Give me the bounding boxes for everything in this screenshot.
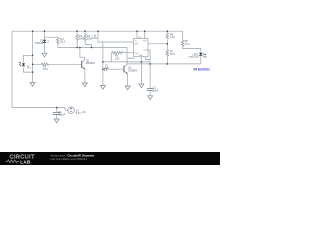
svg-text:1.0k: 1.0k [115, 57, 120, 60]
svg-text:2N3904: 2N3904 [128, 69, 137, 72]
wire R1 top lead [76, 31, 78, 34]
svg-text:100k: 100k [79, 38, 85, 41]
wire R4 bottom to H3 [58, 45, 127, 48]
svg-text:LAB: LAB [20, 159, 31, 164]
ground (V6) [100, 86, 105, 90]
junction dots [32, 30, 168, 108]
wire R2 bottom jog [85, 41, 91, 48]
wire top rail H1 [12, 30, 183, 32]
svg-text:5.0V: 5.0V [76, 112, 81, 115]
resistor R5 (horizontal) [112, 51, 124, 54]
component labels [27, 33, 199, 116]
svg-text:Z: Z [47, 41, 49, 44]
svg-text:5.0V: 5.0V [92, 37, 97, 40]
wire IC right pin upper [148, 43, 167, 45]
wire R6 top lead [166, 31, 168, 33]
transistor Q2 [124, 64, 128, 74]
capacitor C3 [53, 112, 60, 114]
wire Q2 base cap line [103, 68, 124, 70]
resistor R6 [166, 33, 169, 39]
wire V7 vertical [126, 48, 128, 64]
wire photodiode top branch [24, 55, 33, 62]
wire R3 line to Q1 base [33, 63, 82, 65]
wire IC bottom pin V8 [140, 57, 142, 84]
diode D1 [43, 40, 46, 43]
svg-text:IR Emitter: IR Emitter [194, 68, 211, 72]
photodiode D2 [19, 62, 25, 66]
ground (Q1 emitter) [82, 83, 87, 87]
wire R8 to LED top [183, 47, 201, 53]
wire R7 bottom lead [166, 57, 168, 64]
ground (IC pin) [139, 84, 144, 88]
wire LED bottom lead [200, 57, 202, 64]
svg-text:1.0k: 1.0k [170, 36, 175, 39]
op-amp U1 555 box [134, 39, 149, 57]
capacitor C1 [147, 88, 154, 90]
wire photodiode bottom branch [24, 68, 33, 73]
svg-text:10uF: 10uF [153, 89, 159, 92]
svg-text:10.0: 10.0 [185, 43, 190, 46]
svg-text:NE555: NE555 [128, 58, 135, 60]
wire D1 to ground [44, 43, 46, 53]
svg-text:TSAL6100: TSAL6100 [188, 56, 199, 59]
resistor R2 [84, 34, 87, 41]
svg-text:10.0: 10.0 [170, 53, 175, 56]
wire V6 jog from rail [98, 31, 134, 42]
svg-text:http://circuitlab.com/c/394e64: http://circuitlab.com/c/394e64 [51, 157, 88, 161]
resistor R4 [57, 38, 60, 45]
transistor Q1 [82, 60, 85, 69]
wire IC right pin lower V9 [148, 50, 150, 88]
wire R5 line and left drop [111, 53, 133, 62]
wire staple D1-R4 [45, 36, 58, 39]
voltage source V1 [68, 107, 75, 114]
wire IC bottom pin 2 jog [145, 57, 150, 60]
resistor R1 [76, 34, 79, 41]
svg-text:THR: THR [134, 44, 139, 46]
ground (Q2 emitter) [125, 86, 130, 90]
ground (V10) [30, 83, 35, 87]
wire R2 top lead [84, 31, 86, 34]
wire Q2 emitter to ground [127, 74, 129, 86]
wire supply bottom [12, 108, 68, 111]
svg-text:+5v: +5v [82, 111, 87, 114]
wire left rail V1 [11, 31, 13, 107]
ground (C3) [54, 119, 59, 123]
svg-text:PD1: PD1 [27, 68, 32, 70]
wire C3 branch [56, 108, 58, 119]
resistor R7 [166, 50, 169, 57]
wire Q1 collector riser [80, 48, 85, 60]
wire R1 bottom lead [76, 41, 78, 48]
svg-text:1uF: 1uF [105, 67, 110, 70]
wire Q1 emitter to ground [84, 69, 86, 83]
wire IC top pin 1 [136, 31, 138, 38]
wire D1 drop [44, 31, 46, 39]
svg-text:10.0: 10.0 [43, 68, 48, 71]
capacitor C2 [105, 68, 107, 71]
svg-text:GND: GND [139, 55, 144, 57]
banner logo zigzag [6, 160, 20, 163]
ground (C1) [148, 96, 153, 100]
svg-text:2N3904: 2N3904 [86, 62, 95, 65]
svg-text:100nF: 100nF [58, 114, 65, 117]
svg-text:1N4148: 1N4148 [35, 42, 44, 45]
wire rail H6 [103, 61, 150, 63]
wire rail H7 to LED [127, 63, 201, 65]
ground (D1) [42, 53, 47, 57]
resistor R3 (horizontal) [41, 63, 49, 66]
wire node V10 vertical [32, 31, 34, 82]
svg-text:50.0: 50.0 [60, 41, 65, 44]
LED LED1 [199, 53, 207, 58]
wire R8 drop [182, 31, 184, 40]
wire V6 vertical [102, 42, 104, 86]
wire R6 bottom / R7 top leads [166, 40, 168, 50]
wire IC top pin 2 [144, 31, 146, 38]
banner background [0, 152, 220, 165]
resistor R8 [181, 40, 184, 47]
wire C1 bottom to ground [149, 91, 151, 96]
